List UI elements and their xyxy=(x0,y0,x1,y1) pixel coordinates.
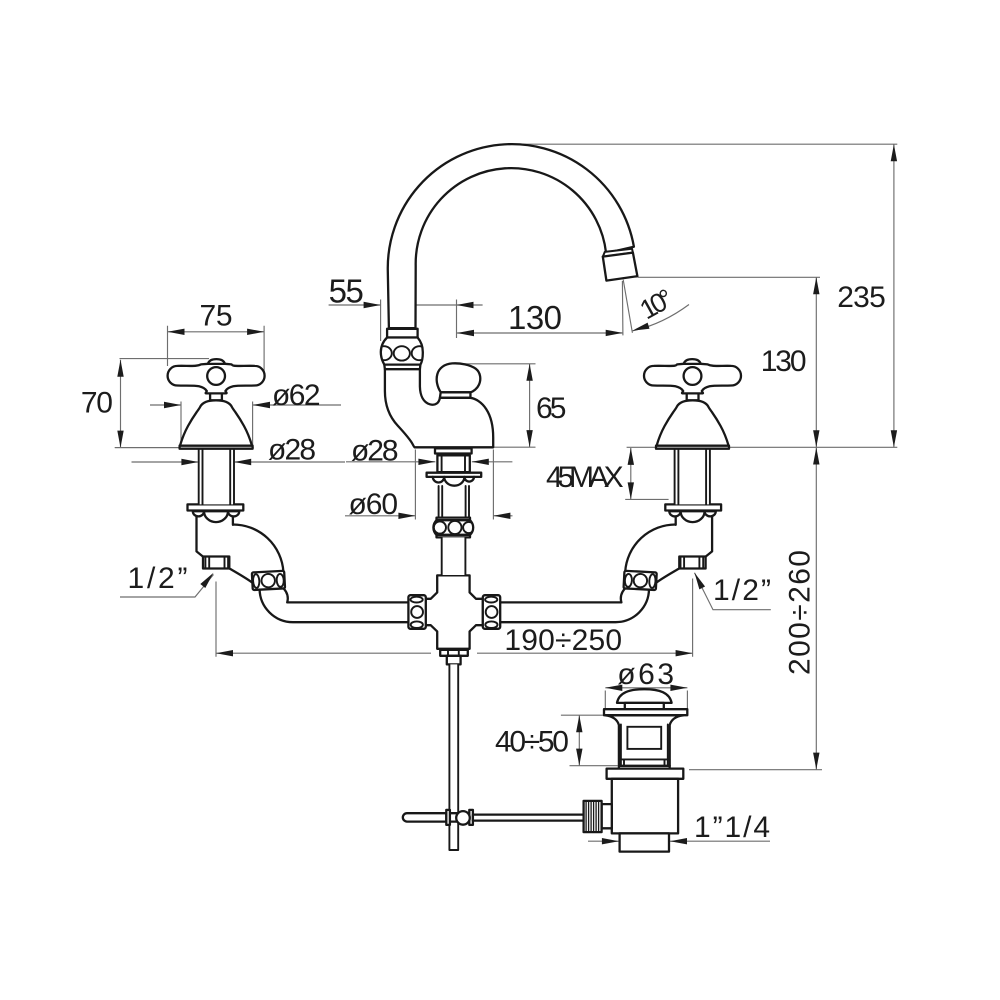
stem flange xyxy=(188,504,244,510)
waste overflow window xyxy=(627,727,661,749)
leader 1/2 inch left xyxy=(120,562,216,597)
waste cap dome xyxy=(617,689,672,703)
1/2 inch stub xyxy=(203,557,229,569)
waste lower flange xyxy=(619,766,670,769)
dim 55 spout offset xyxy=(329,272,483,341)
flange scallops xyxy=(433,477,474,486)
valve stem ø28 xyxy=(199,449,234,505)
dim 130 outlet height xyxy=(638,277,820,447)
svg-text:55: 55 xyxy=(329,272,364,309)
svg-text:130: 130 xyxy=(508,299,562,336)
dim ø28 left valve stem xyxy=(132,434,346,467)
knurled nut xyxy=(584,801,602,832)
handle button cap xyxy=(208,359,225,364)
rod port xyxy=(602,804,612,828)
dim 1"1/4 waste thread xyxy=(588,811,770,844)
valve body lower xyxy=(197,512,233,557)
threaded shank xyxy=(439,486,469,518)
svg-text:ø60: ø60 xyxy=(349,488,399,521)
bell escutcheon xyxy=(180,400,253,448)
svg-text:1/2”: 1/2” xyxy=(128,562,188,595)
pop-up rod connector xyxy=(440,650,468,665)
spout joint band xyxy=(603,249,633,257)
left valve assembly xyxy=(168,359,410,622)
svg-text:75: 75 xyxy=(200,300,233,333)
flange scallops xyxy=(193,511,204,516)
body top knob xyxy=(437,363,481,392)
svg-text:ø28: ø28 xyxy=(351,435,399,468)
svg-text:1”1/4: 1”1/4 xyxy=(694,811,770,844)
svg-text:200÷260: 200÷260 xyxy=(784,550,817,675)
dim 65 body height xyxy=(455,364,566,447)
dim 70 handle height xyxy=(81,359,254,448)
svg-text:40÷50: 40÷50 xyxy=(495,726,569,759)
junction ring right xyxy=(483,595,500,629)
waste body band xyxy=(619,759,670,765)
svg-text:ø28: ø28 xyxy=(268,434,316,467)
junction ring left xyxy=(408,595,425,629)
dim 40÷50 waste adjustment xyxy=(495,715,618,766)
svg-text:ø62: ø62 xyxy=(272,379,321,412)
faucet body vase xyxy=(385,369,493,447)
vertical pop-up rod xyxy=(449,664,458,850)
center column under-base xyxy=(427,448,482,575)
horizontal lever rod xyxy=(403,810,584,825)
down tube xyxy=(442,537,466,575)
svg-text:ø63: ø63 xyxy=(617,658,674,691)
leader 1/2 inch right xyxy=(692,571,771,609)
waste main body xyxy=(612,779,678,834)
svg-text:130: 130 xyxy=(761,345,807,378)
waste cap neck xyxy=(625,703,664,709)
mounting nut xyxy=(437,455,469,472)
elbow upper sweep xyxy=(229,524,284,588)
pop-up waste assembly xyxy=(584,689,688,851)
waste top flange xyxy=(604,709,687,715)
right valve assembly (mirror) xyxy=(499,359,741,622)
svg-text:235: 235 xyxy=(837,281,886,314)
handle hub xyxy=(207,367,225,385)
dim 190÷250 valve spacing xyxy=(216,579,693,658)
under flange xyxy=(427,473,482,477)
spout aerator nozzle xyxy=(603,253,638,281)
base washer plate xyxy=(435,448,472,453)
dim 75 handle width xyxy=(168,300,265,376)
knob neck band xyxy=(440,392,471,398)
dim ø28 center shank xyxy=(346,435,512,468)
svg-text:45MAX: 45MAX xyxy=(546,461,624,494)
waste tailpiece xyxy=(620,833,669,851)
svg-text:65: 65 xyxy=(536,392,566,425)
dim ø60 base diameter xyxy=(345,450,513,522)
junction cross body xyxy=(424,575,483,648)
waste upper body xyxy=(606,715,684,765)
lower collar xyxy=(433,518,474,538)
cross handle xyxy=(168,364,265,394)
dim ø62 bell diameter xyxy=(150,379,341,447)
dim 130 spout reach xyxy=(457,299,623,336)
svg-text:190÷250: 190÷250 xyxy=(504,624,622,657)
svg-text:70: 70 xyxy=(81,387,113,420)
baseline countertop xyxy=(115,446,898,448)
dim 45MAX deck thickness xyxy=(546,448,669,500)
riser collar xyxy=(376,329,427,369)
dim 200÷260 under-counter depth xyxy=(689,448,822,770)
dim 235 total height xyxy=(521,144,897,447)
angle 10 degrees xyxy=(622,280,689,336)
spout riser and arc xyxy=(388,144,634,328)
pipe to junction xyxy=(260,584,410,622)
svg-text:1/2”: 1/2” xyxy=(713,574,771,607)
elbow collar xyxy=(252,571,285,590)
dim ø63 waste flange xyxy=(605,658,687,709)
handle stem neck xyxy=(210,393,222,400)
